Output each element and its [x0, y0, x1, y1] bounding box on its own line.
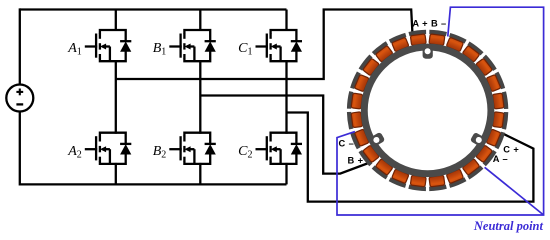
svg-text:A2: A2: [67, 144, 82, 161]
wire phase B leg: mid link: [199, 60, 201, 134]
wire bottom DC rail: [20, 183, 287, 185]
svg-text:A –: A –: [493, 154, 508, 164]
voltage source V1: [6, 85, 33, 112]
wire phase B leg: top stub: [199, 10, 201, 32]
wire left DC bus (positive): [19, 8, 21, 84]
wire neutral branch from stator tap A-: [485, 167, 544, 215]
motor stator: mounting tabs with holes: [368, 45, 486, 147]
wire phase A output to stator tap A+: [116, 10, 413, 80]
svg-text:C2: C2: [238, 144, 252, 161]
svg-text:C1: C1: [238, 41, 252, 58]
wire phase A leg: top stub: [115, 10, 117, 32]
svg-text:C –: C –: [339, 138, 355, 148]
wire neutral: stator tap B- up, across top, down right side: [337, 7, 544, 215]
transistor B2 (N-MOSFET with body diode): [169, 133, 216, 164]
svg-text:C +: C +: [503, 144, 519, 154]
svg-text:B2: B2: [153, 144, 167, 161]
wire phase A leg: mid link: [115, 60, 117, 134]
wire phase C leg: mid link: [285, 60, 287, 134]
wire left DC bus (negative): [19, 111, 21, 185]
transistor A2 (N-MOSFET with body diode): [85, 133, 132, 164]
wire phase B leg: bottom stub: [199, 163, 201, 185]
wire phase B output to stator tap B+: [200, 96, 371, 174]
transistor C1 (N-MOSFET with body diode): [256, 30, 303, 61]
wire phase C leg: bottom stub: [285, 163, 287, 185]
transistor B1 (N-MOSFET with body diode): [169, 30, 216, 61]
svg-text:A + B –: A + B –: [412, 18, 446, 28]
svg-text:B +: B +: [348, 155, 364, 165]
motor stator: core ring: [364, 47, 491, 174]
motor stator: tooth tip arcs: [349, 32, 506, 189]
wire top DC rail: [20, 8, 287, 10]
wire phase C output to stator tap C+: [287, 113, 534, 202]
transistor C2 (N-MOSFET with body diode): [256, 133, 303, 164]
wire phase C leg: top stub: [285, 10, 287, 32]
wire phase A leg: bottom stub: [115, 163, 117, 185]
svg-text:A1: A1: [67, 41, 82, 58]
transistor A1 (N-MOSFET with body diode): [85, 30, 132, 61]
svg-text:Neutral point: Neutral point: [473, 219, 544, 233]
svg-text:B1: B1: [153, 41, 167, 58]
